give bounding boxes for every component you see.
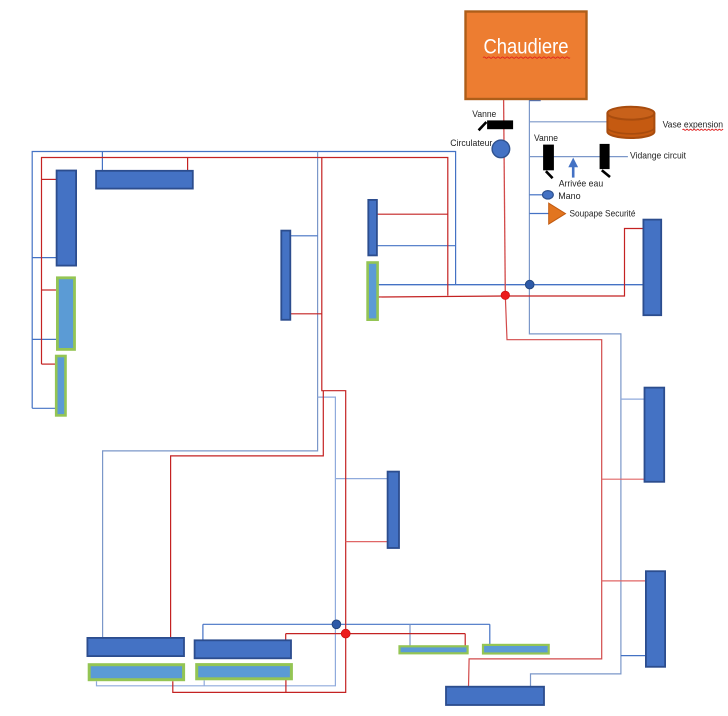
wire blue tap G4 (489, 624, 491, 644)
wire blue main middle horizontal (378, 284, 644, 286)
wire red stub radiator R1 (602, 478, 645, 480)
wire red tap into G3 (464, 634, 466, 650)
wire blue tap G3 (409, 624, 411, 645)
expansion vessel cylinder (607, 107, 654, 138)
wire blue main left loop (32, 152, 455, 409)
node blue junction A (525, 280, 534, 289)
wire blue stub to radiator L3 (32, 407, 56, 409)
wire red stub radiator Mid3 (346, 541, 388, 543)
radiator Mid3 (388, 472, 399, 548)
pump Circulateur (492, 140, 510, 158)
wire blue boiler drop and right riser (529, 99, 621, 687)
wire blue stub radiator Mid2 (377, 245, 456, 247)
wire red main left loop (42, 158, 448, 365)
wire red bottom header (286, 633, 466, 635)
wire blue stub to radiator L2 (32, 338, 57, 340)
wire blue stub to radiator L1 (32, 257, 56, 259)
wire blue mid drop to bottom-left (103, 152, 318, 639)
svg-text:Circulateur: Circulateur (450, 138, 492, 149)
svg-text:Vanne: Vanne (472, 109, 496, 120)
radiator MidG green (368, 263, 378, 320)
wire red stub radiator Mid2 (377, 213, 448, 215)
wire blue stub radiator R2 (621, 655, 646, 657)
wire red below junction to right riser (469, 295, 602, 687)
radiator B1 (87, 638, 184, 656)
valve V2 handle slash (546, 171, 553, 178)
svg-text:Chaudiere: Chaudiere (484, 36, 569, 59)
wire red mid riser with jog (173, 158, 346, 693)
wire red tap to top radiator (187, 158, 189, 171)
radiator G1 green (89, 665, 183, 680)
wire blue stub radiator Mid3 (335, 478, 387, 480)
radiator R1 (645, 388, 665, 482)
radiator G3 green thin (400, 646, 468, 653)
radiator Mid1 (281, 231, 290, 320)
wire red inner drop to bottom-left (171, 391, 324, 639)
radiator top horizontal (96, 171, 193, 189)
svg-text:Mano: Mano (558, 191, 581, 202)
node blue junction B (332, 620, 341, 629)
wire red main middle and riser to R0 (377, 229, 643, 298)
svg-text:Soupape Securité: Soupape Securité (570, 208, 636, 219)
squiggle under expension (683, 129, 724, 130)
squiggle under Chaudiere (483, 57, 570, 58)
wire red stub to radiator L3 (42, 363, 57, 365)
valve V3 vertical (600, 144, 610, 169)
wire blue tap B2 (202, 624, 204, 640)
wire blue line to soupape (529, 213, 548, 215)
wire blue stub radiator R1 (621, 398, 645, 400)
wire blue line vidange circuit (529, 156, 628, 158)
svg-text:Arrivée eau: Arrivée eau (559, 178, 604, 189)
valve V1 on boiler red pipe (487, 120, 513, 129)
node red junction B (341, 629, 350, 638)
valve V1 handle slash (479, 122, 487, 130)
node red junction A (501, 291, 509, 299)
wire red tap B2 (285, 634, 287, 641)
wire blue stub under boiler (529, 100, 540, 102)
radiator L3 green thin (56, 356, 65, 415)
safety valve Soupape (549, 203, 566, 224)
wire blue branch drop to bottom radiators (97, 397, 336, 686)
valve V2 vertical (543, 145, 554, 171)
radiator R2 (646, 571, 665, 667)
radiator L2 green (57, 278, 74, 350)
wire red stub G2 bottom (285, 680, 287, 693)
radiator G4 green thin (483, 645, 549, 654)
radiator R0 (643, 220, 661, 316)
wire blue line to mano (529, 194, 542, 196)
wire blue stub radiator Mid1 (290, 235, 317, 237)
wire blue line to expansion vessel (529, 121, 610, 123)
wire red stub radiator R2 (602, 580, 646, 582)
wire red stub to radiator L2 (42, 289, 58, 291)
svg-text:Vase expension: Vase expension (663, 119, 724, 130)
radiator Mid2 (368, 200, 377, 256)
radiator bottom (446, 687, 544, 705)
wire red stub radiator Mid1 (290, 313, 322, 315)
valve V3 handle slash (602, 170, 610, 177)
wire red stub to radiator L1 (42, 178, 57, 180)
svg-text:Vanne: Vanne (534, 133, 558, 144)
wire red boiler drop through pump (504, 99, 506, 295)
wire blue tap to top radiator (101, 152, 103, 171)
gauge Mano (543, 191, 554, 199)
svg-text:Vidange circuit: Vidange circuit (630, 151, 686, 162)
radiator L1 (57, 171, 77, 266)
radiator G2 green (197, 665, 292, 679)
wire blue stub G2 bottom (203, 680, 205, 685)
wire blue bottom header (203, 623, 490, 625)
radiator B2 (195, 640, 291, 658)
boiler Chaudiere (466, 12, 587, 100)
arrow arrivee eau (568, 158, 578, 178)
